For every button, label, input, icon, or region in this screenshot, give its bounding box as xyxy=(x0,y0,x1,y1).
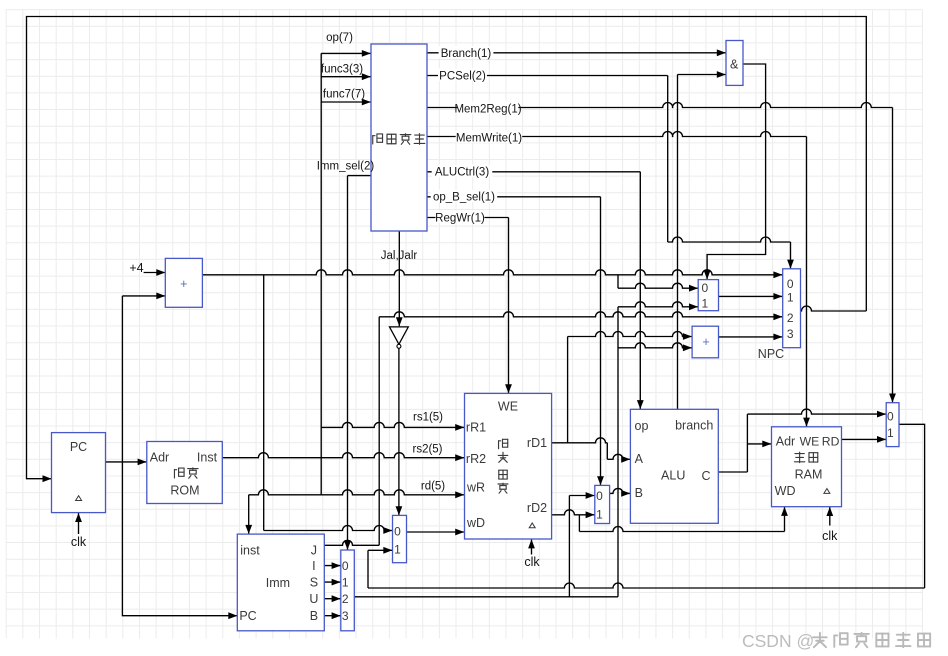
svg-text:clk: clk xyxy=(524,555,540,569)
svg-text:ROM: ROM xyxy=(170,484,199,498)
svg-text:RAM: RAM xyxy=(795,468,823,482)
svg-text:&: & xyxy=(730,58,739,72)
svg-text:ALU: ALU xyxy=(661,469,685,483)
svg-text:C: C xyxy=(701,469,710,483)
svg-text:1: 1 xyxy=(787,291,794,305)
svg-text:Imm: Imm xyxy=(266,576,290,590)
svg-text:func3(3): func3(3) xyxy=(321,64,363,76)
svg-text:1: 1 xyxy=(596,507,603,521)
svg-text:WE: WE xyxy=(800,434,820,448)
svg-text:J: J xyxy=(311,544,317,558)
svg-text:I: I xyxy=(312,559,315,573)
svg-text:Inst: Inst xyxy=(197,451,218,465)
svg-text:PC: PC xyxy=(239,609,256,623)
svg-text:Imm_sel(2): Imm_sel(2) xyxy=(317,161,375,173)
svg-text:rs1(5): rs1(5) xyxy=(413,411,443,423)
svg-text:B: B xyxy=(310,609,318,623)
svg-text:PCSel(2): PCSel(2) xyxy=(439,70,486,82)
svg-text:WE: WE xyxy=(498,400,518,414)
svg-text:+: + xyxy=(702,335,709,349)
svg-text:op(7): op(7) xyxy=(326,32,353,44)
svg-text:clk: clk xyxy=(71,535,87,549)
svg-text:Adr: Adr xyxy=(776,434,795,448)
svg-text:rd(5): rd(5) xyxy=(421,480,445,492)
svg-text:B: B xyxy=(635,486,643,500)
svg-text:2: 2 xyxy=(787,311,794,325)
svg-text:NPC: NPC xyxy=(758,347,784,361)
svg-text:0: 0 xyxy=(701,281,708,295)
svg-text:op: op xyxy=(635,419,649,433)
svg-text:PC: PC xyxy=(70,440,87,454)
svg-text:3: 3 xyxy=(342,609,349,623)
svg-text:0: 0 xyxy=(887,410,894,424)
svg-text:rR2: rR2 xyxy=(466,452,486,466)
svg-text:RegWr(1): RegWr(1) xyxy=(435,212,485,224)
svg-text:+4: +4 xyxy=(129,261,143,275)
svg-text:S: S xyxy=(310,576,318,590)
svg-text:wD: wD xyxy=(466,516,485,530)
svg-text:0: 0 xyxy=(787,277,794,291)
svg-text:Mem2Reg(1): Mem2Reg(1) xyxy=(454,103,521,115)
svg-text:rD2: rD2 xyxy=(527,501,547,515)
svg-text:A: A xyxy=(635,452,644,466)
svg-text:rR1: rR1 xyxy=(466,420,486,434)
svg-text:inst: inst xyxy=(240,544,260,558)
svg-text:0: 0 xyxy=(342,559,349,573)
svg-text:+: + xyxy=(180,277,187,291)
svg-text:1: 1 xyxy=(394,543,401,557)
svg-text:2: 2 xyxy=(342,592,349,606)
svg-text:3: 3 xyxy=(787,327,794,341)
svg-text:Branch(1): Branch(1) xyxy=(441,48,492,60)
svg-text:MemWrite(1): MemWrite(1) xyxy=(456,132,522,144)
svg-text:RD: RD xyxy=(822,434,840,448)
svg-text:0: 0 xyxy=(394,525,401,539)
svg-text:ALUCtrl(3): ALUCtrl(3) xyxy=(435,167,489,179)
svg-text:0: 0 xyxy=(596,489,603,503)
svg-text:clk: clk xyxy=(822,529,838,543)
svg-text:1: 1 xyxy=(701,297,708,311)
svg-text:rs2(5): rs2(5) xyxy=(412,444,442,456)
svg-text:U: U xyxy=(309,592,318,606)
svg-text:1: 1 xyxy=(342,576,349,590)
svg-text:rD1: rD1 xyxy=(527,436,547,450)
svg-text:Adr: Adr xyxy=(150,451,169,465)
svg-text:1: 1 xyxy=(887,426,894,440)
svg-text:CSDN @: CSDN @ xyxy=(742,631,814,651)
svg-text:op_B_sel(1): op_B_sel(1) xyxy=(433,192,495,204)
svg-text:func7(7): func7(7) xyxy=(323,89,365,101)
svg-text:branch: branch xyxy=(675,418,713,432)
svg-text:Jal,Jalr: Jal,Jalr xyxy=(381,250,418,262)
svg-text:wR: wR xyxy=(466,481,485,495)
svg-text:WD: WD xyxy=(775,484,796,498)
